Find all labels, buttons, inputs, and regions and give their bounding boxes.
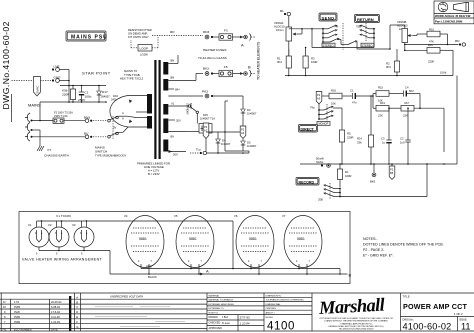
- svg-text:R14: R14: [357, 137, 362, 141]
- valve V3: [72, 223, 94, 256]
- svg-text:MONOP: MONOP: [319, 122, 329, 126]
- svg-text:RD3: RD3: [203, 30, 209, 34]
- label RETURN box: [355, 15, 380, 23]
- node SVAC shield: [34, 77, 41, 97]
- svg-text:0V: 0V: [113, 126, 116, 130]
- wire RD dotted: [152, 30, 203, 36]
- potentiometer VR1MB: [390, 20, 427, 50]
- label primaries linked: [137, 162, 170, 177]
- terminal RD3: [203, 30, 219, 39]
- svg-text:F3: F3: [224, 29, 228, 33]
- svg-text:A: A: [76, 295, 78, 299]
- svg-text:RECORD: RECORD: [299, 180, 315, 184]
- svg-text:CENTRES: CENTRES: [266, 308, 277, 310]
- svg-text:ALOG10: ALOG10: [274, 24, 285, 28]
- svg-text:BK6: BK6: [370, 180, 376, 184]
- svg-text:K.Lee: K.Lee: [222, 321, 230, 325]
- svg-text:P2: P2: [317, 93, 321, 97]
- jack RETURN contacts: [356, 23, 375, 47]
- label to heater elements: [257, 41, 261, 80]
- svg-text:741: 741: [2, 328, 7, 332]
- svg-text:A: A: [206, 269, 209, 274]
- terminal BK6: [370, 163, 376, 183]
- wire rectifier loop: [225, 96, 249, 153]
- terminal LNE: [52, 65, 69, 72]
- svg-text:20-06-94: 20-06-94: [51, 300, 62, 304]
- terminal BK3: [203, 67, 219, 76]
- potentiometer VR1MA: [274, 21, 302, 56]
- svg-text:WH: WH: [175, 88, 180, 92]
- svg-text:F5: F5: [224, 65, 228, 69]
- mains connector: [25, 113, 85, 146]
- svg-text:EXTERNAL SEMI FINISH: EXTERNAL SEMI FINISH: [209, 303, 235, 306]
- resistor R10: [427, 28, 448, 45]
- wire record bus: [300, 76, 457, 165]
- capacitor C2: [400, 107, 411, 164]
- svg-text:RESISTOR FITTED: RESISTOR FITTED: [128, 28, 152, 32]
- wire dotted to strip: [12, 80, 52, 82]
- wire switch to primary: [118, 116, 136, 132]
- svg-text:A: A: [122, 111, 124, 115]
- svg-text:R16: R16: [331, 89, 336, 93]
- svg-text:50mW: 50mW: [316, 157, 324, 161]
- svg-text:TITLE: TITLE: [403, 295, 410, 299]
- svg-text:1N4007: 1N4007: [221, 142, 231, 146]
- svg-text:C1: C1: [350, 89, 354, 93]
- valve V7: [282, 214, 322, 274]
- svg-text:V5: V5: [174, 214, 178, 218]
- svg-text:D2: D2: [247, 108, 251, 112]
- svg-text:P2: P2: [204, 125, 208, 129]
- table volt data header: [95, 294, 185, 326]
- svg-text:1-10-93: 1-10-93: [51, 320, 60, 324]
- resistor RL: [337, 164, 351, 187]
- svg-text:0V80: 0V80: [14, 315, 21, 319]
- svg-text:3 x TCC83: 3 x TCC83: [56, 214, 71, 218]
- svg-text:V4: V4: [124, 214, 128, 218]
- svg-text:79a: 79a: [310, 106, 315, 110]
- diode D2: [241, 107, 257, 117]
- svg-text:3K3: 3K3: [386, 65, 391, 69]
- svg-text:C: C: [76, 305, 78, 309]
- svg-text:SEND: SEND: [322, 15, 335, 20]
- svg-text:A3: A3: [317, 97, 321, 101]
- svg-text:17-5-94: 17-5-94: [51, 310, 60, 314]
- svg-text:RED: RED: [146, 264, 152, 268]
- table revision rows: [0, 299, 207, 328]
- node P2 A3 direct: [316, 92, 322, 105]
- svg-text:100R: 100R: [311, 60, 317, 64]
- resistor R14: [357, 95, 374, 164]
- wire heater bottom bus: [39, 250, 110, 274]
- label RECORD box: [296, 178, 319, 186]
- svg-text:17/1: 17/1: [14, 300, 20, 304]
- svg-text:DENBIGH ROAD, BLETCHLEY, MILTO: DENBIGH ROAD, BLETCHLEY, MILTON KEYNES, …: [328, 325, 383, 328]
- node star point text: [82, 71, 111, 76]
- svg-text:V1: V1: [171, 102, 175, 106]
- svg-text:EXTERNAL 2.5: EXTERNAL 2.5: [209, 307, 225, 310]
- label resistor fitted note: [128, 28, 152, 39]
- svg-text:33K: 33K: [357, 141, 362, 145]
- label heater fuses: [198, 48, 227, 60]
- valve V6: [234, 214, 274, 274]
- svg-text:/77: /77: [47, 148, 52, 152]
- svg-text:5881: 5881: [189, 237, 197, 241]
- wire loop cross: [312, 40, 390, 50]
- svg-text:10Vd: 10Vd: [440, 71, 447, 75]
- svg-text:DWG.No.4100-60-02: DWG.No.4100-60-02: [1, 21, 11, 109]
- svg-text:C2: C2: [400, 137, 404, 141]
- svg-text:0V2h: 0V2h: [14, 310, 21, 314]
- svg-text:POWER AMP CCT: POWER AMP CCT: [403, 302, 468, 311]
- node P2 A3: [240, 124, 246, 139]
- svg-text:TYPE SRJ8CMAB8KGOGV: TYPE SRJ8CMAB8KGOGV: [95, 155, 126, 158]
- resistor LOOP: [131, 36, 158, 57]
- svg-text:CHECKED: CHECKED: [209, 322, 221, 325]
- svg-text:VR1MB: VR1MB: [397, 20, 406, 24]
- svg-text:G: G: [76, 325, 78, 329]
- svg-text:MATERIAL TOLERANCE: MATERIAL TOLERANCE: [209, 299, 234, 302]
- resistor R16: [322, 89, 352, 106]
- svg-text:Marshall: Marshall: [318, 296, 387, 320]
- svg-text:B: B: [248, 65, 251, 70]
- svg-text:DIMENSION IN: DIMENSION IN: [266, 295, 282, 297]
- svg-text:DIRECT: DIRECT: [301, 127, 315, 131]
- diode D17: [97, 86, 110, 103]
- svg-text:1N4007: 1N4007: [247, 144, 257, 148]
- svg-text:V3: V3: [72, 223, 76, 227]
- svg-text:0V80: 0V80: [14, 320, 21, 324]
- svg-text:DATE: DATE: [51, 328, 58, 332]
- svg-text:D: D: [76, 310, 78, 314]
- svg-text:MODEL: MODEL: [266, 317, 275, 319]
- svg-text:1.10.94: 1.10.94: [240, 321, 250, 325]
- capacitor C4: [404, 86, 420, 109]
- svg-text:NOTES:-: NOTES:-: [363, 237, 378, 241]
- svg-text:T0.3A 20mm GLASS: T0.3A 20mm GLASS: [198, 56, 227, 60]
- resistor R56: [62, 86, 76, 103]
- svg-text:HEX TYPE TXCL2: HEX TYPE TXCL2: [120, 77, 144, 81]
- svg-text:1N4007: 1N4007: [101, 95, 111, 99]
- terminal PK3: [202, 90, 243, 98]
- svg-text:3K3: 3K3: [277, 60, 282, 64]
- wire black heater: [110, 269, 352, 280]
- svg-text:11: 11: [461, 322, 471, 332]
- table material block: [207, 294, 264, 331]
- MAINS PSU label box: [66, 31, 108, 41]
- svg-text:A3: A3: [241, 131, 245, 135]
- drawing number strip: [1, 21, 11, 109]
- svg-text:SWITCH: SWITCH: [95, 150, 107, 154]
- svg-text:VALVE HEATER WIRING ARRANGEMEN: VALVE HEATER WIRING ARRANGEMENT: [22, 258, 103, 262]
- svg-text:DRAWN: DRAWN: [209, 316, 218, 319]
- svg-text:5881: 5881: [249, 237, 257, 241]
- svg-text:5881: 5881: [139, 237, 147, 241]
- fuse F3: [219, 29, 255, 48]
- svg-text:RD: RD: [170, 30, 175, 34]
- svg-text:A: A: [122, 116, 124, 120]
- fuse F5: [219, 65, 255, 78]
- svg-text:D5: D5: [247, 141, 251, 145]
- svg-text:© MARSHALL AMPLIFICATION: © MARSHALL AMPLIFICATION PLC: [340, 322, 373, 325]
- label mains tx type: [120, 69, 144, 81]
- svg-text:BV: BV: [171, 135, 175, 139]
- notes text: [363, 237, 444, 258]
- svg-text:1n0: 1n0: [400, 141, 405, 145]
- resistor R3: [303, 47, 317, 76]
- resistor R13: [372, 94, 401, 118]
- ground chassis earth: [37, 146, 69, 158]
- wire psu bus: [40, 101, 107, 103]
- svg-text:RETURN: RETURN: [357, 17, 374, 22]
- table frame: [0, 293, 474, 331]
- switch battery standby: [186, 103, 199, 118]
- svg-text:HEATER FUSES: HEATER FUSES: [203, 48, 227, 52]
- svg-text:VA7: VA7: [404, 101, 409, 105]
- resistor R2: [386, 48, 400, 75]
- svg-text:R2: R2: [386, 62, 390, 66]
- svg-text:220R: 220R: [62, 93, 70, 97]
- jack SEND sleeve: [341, 23, 358, 50]
- mains switch: [95, 116, 126, 158]
- svg-text:TOLERANCE (UNLESS OTHERWISE): TOLERANCE (UNLESS OTHERWISE): [266, 299, 304, 302]
- node P2 A7: [203, 123, 209, 152]
- svg-text:STEREO: STEREO: [362, 43, 373, 47]
- svg-text:100u: 100u: [85, 95, 92, 99]
- logo Marshall: [318, 296, 394, 331]
- svg-text:B: B: [349, 273, 352, 278]
- svg-text:BK3: BK3: [203, 67, 209, 71]
- terminal RD: [404, 39, 465, 46]
- svg-text:1N4007 T1A: 1N4007 T1A: [200, 117, 215, 121]
- terminal TLa: [190, 148, 249, 155]
- jack signal terminals: [316, 157, 330, 168]
- svg-text:50V: 50V: [409, 89, 414, 93]
- svg-text:J5B: J5B: [318, 198, 323, 202]
- svg-text:ON DEMO AMP,: ON DEMO AMP,: [128, 31, 148, 35]
- label DIRECT box: [299, 125, 318, 133]
- svg-text:R13: R13: [380, 101, 385, 105]
- svg-text:D15: D15: [203, 113, 208, 117]
- svg-text:1 OF 2: 1 OF 2: [454, 312, 463, 316]
- svg-text:ANGLE ±: ANGLE ±: [266, 312, 276, 315]
- svg-text:5881: 5881: [297, 237, 305, 241]
- svg-text:100R: 100R: [345, 174, 351, 178]
- svg-text:SGNL: SGNL: [316, 160, 324, 164]
- svg-text:ECO NUMBER: ECO NUMBER: [14, 328, 32, 332]
- svg-text:220R: 220R: [347, 136, 353, 140]
- svg-text:4100: 4100: [267, 321, 295, 333]
- wire neutral drop: [39, 102, 41, 121]
- transformer T1 core: [154, 60, 160, 159]
- svg-text:RL: RL: [280, 9, 284, 13]
- svg-text:B = 234V: B = 234V: [148, 172, 160, 176]
- svg-text:250V: 250V: [78, 98, 86, 102]
- svg-text:PK3: PK3: [202, 90, 208, 94]
- transformer T1 primary: [147, 94, 152, 129]
- svg-text:B: B: [76, 300, 78, 304]
- terminal RL: [280, 9, 290, 27]
- resistor R5: [333, 108, 353, 164]
- svg-text:V1: V1: [28, 223, 32, 227]
- svg-text:20V: 20V: [173, 153, 178, 157]
- svg-text:R3: R3: [311, 57, 315, 61]
- resistor R12: [401, 101, 444, 152]
- svg-text:B5: B5: [390, 171, 394, 175]
- svg-text:APPROVED: APPROVED: [209, 327, 223, 330]
- svg-text:F: F: [76, 320, 78, 324]
- svg-text:4100-60-02: 4100-60-02: [403, 322, 452, 332]
- svg-text:TEL (0908) 375411 FAX (0908): TEL (0908) 375411 FAX (0908) 376118: [339, 328, 375, 331]
- svg-text:DOTTED LINES DENOTE WIRES OFF: DOTTED LINES DENOTE WIRES OFF THE PCB.: [363, 243, 444, 247]
- terminal BU: [84, 132, 107, 139]
- svg-text:R5: R5: [347, 132, 351, 136]
- svg-text:MATERIAL: MATERIAL: [209, 294, 221, 297]
- label SEND box: [319, 13, 337, 21]
- svg-text:LOOP: LOOP: [140, 47, 149, 51]
- valve heater box: [19, 212, 350, 284]
- svg-text:1N4007: 1N4007: [247, 112, 257, 116]
- svg-text:C3: C3: [381, 137, 385, 141]
- svg-text:RL: RL: [345, 170, 349, 174]
- svg-text:P2 - PAGE 2.: P2 - PAGE 2.: [363, 248, 384, 252]
- svg-text:BN: BN: [171, 76, 175, 80]
- svg-text:RD: RD: [455, 39, 460, 43]
- svg-text:MAINS: MAINS: [28, 103, 41, 108]
- svg-text:STANDBY: STANDBY: [186, 103, 189, 115]
- svg-text:R1: R1: [277, 57, 281, 61]
- valve V2: [48, 223, 69, 256]
- svg-text:A: A: [241, 43, 244, 48]
- svg-text:R15: R15: [378, 86, 383, 90]
- diode D4: [206, 131, 243, 153]
- label mains: [28, 103, 41, 108]
- resistor R1: [277, 49, 291, 76]
- svg-text:LOANED WITHOUT THE WRITTEN PER: LOANED WITHOUT THE WRITTEN PERMISSION OF…: [324, 320, 388, 323]
- svg-text:22K: 22K: [403, 114, 408, 118]
- svg-text:P2: P2: [241, 128, 245, 132]
- svg-text:V2: V2: [48, 223, 52, 227]
- svg-text:47n: 47n: [352, 101, 357, 105]
- svg-text:D16: D16: [113, 94, 118, 98]
- svg-text:WORK ANGLE 45 DEG'CW: WORK ANGLE 45 DEG'CW: [435, 14, 471, 18]
- svg-text:NOM TOL: NOM TOL: [209, 313, 220, 315]
- table tolerance block: [264, 295, 312, 332]
- svg-text:E* - GRID REF. E*.: E* - GRID REF. E*.: [363, 254, 394, 258]
- terminal BN3: [84, 116, 107, 123]
- wire primary taps: [110, 94, 147, 130]
- svg-text:230V T1.6A: 230V T1.6A: [54, 114, 68, 118]
- valve V4: [124, 214, 164, 274]
- node P2 B5: [389, 163, 395, 179]
- svg-text:10mm: 10mm: [276, 28, 284, 32]
- svg-text:P2: P2: [390, 168, 394, 172]
- svg-text:VR1MA: VR1MA: [274, 21, 283, 25]
- svg-text:MAINS PSU: MAINS PSU: [71, 35, 108, 41]
- title block: [401, 293, 474, 332]
- svg-text:SVAC: SVAC: [35, 85, 39, 94]
- resistor R11: [404, 43, 453, 76]
- wire star rail: [60, 70, 106, 103]
- wire heater top bus: [37, 220, 234, 227]
- svg-text:6-08-94: 6-08-94: [51, 305, 60, 309]
- svg-text:TLa: TLa: [196, 148, 201, 152]
- svg-text:ALOG10: ALOG10: [397, 23, 408, 27]
- svg-text:DIMENSIONAL: DIMENSIONAL: [266, 303, 282, 306]
- resistor R15: [373, 86, 403, 103]
- svg-text:D17: D17: [102, 90, 108, 94]
- capacitor C1: [350, 89, 373, 105]
- wire strip border: [11, 94, 13, 122]
- svg-text:Part L1306CM2.2WM: Part L1306CM2.2WM: [435, 19, 463, 23]
- svg-text:240V: 240V: [111, 98, 117, 102]
- capacitor C30: [78, 86, 92, 103]
- svg-text:L/10W: L/10W: [140, 53, 148, 57]
- wire red heater: [141, 221, 340, 274]
- valve V1: [28, 223, 49, 256]
- svg-text:STEREO: STEREO: [323, 43, 334, 47]
- svg-text:27/7-93: 27/7-93: [240, 316, 251, 320]
- table grid letters: [76, 295, 78, 328]
- svg-text:3-11-93: 3-11-93: [51, 315, 60, 319]
- svg-text:UNSPECIFIED VOLT DATA: UNSPECIFIED VOLT DATA: [110, 294, 143, 298]
- table revision text: [2, 300, 62, 331]
- svg-text:TO HEATER ELEMENTS: TO HEATER ELEMENTS: [257, 41, 261, 80]
- capacitor C3: [381, 107, 392, 164]
- switch mono: [310, 104, 334, 126]
- fuse F2: [53, 111, 85, 124]
- svg-text:E: E: [76, 315, 78, 319]
- svg-text:J.Boz: J.Boz: [222, 316, 229, 319]
- transformer T1 secondary: [163, 62, 168, 152]
- wire lower fx bus: [285, 71, 453, 77]
- svg-text:CHASSIS EARTH: CHASSIS EARTH: [44, 154, 69, 158]
- svg-text:BN: BN: [171, 59, 175, 63]
- terminal GND: [52, 76, 69, 83]
- valve V5: [174, 214, 214, 274]
- diode D15: [186, 113, 215, 133]
- wire send feed: [289, 28, 323, 48]
- svg-text:C4: C4: [405, 86, 409, 90]
- wire secondary taps: [168, 55, 203, 157]
- svg-text:KIT UNITS ONLY: KIT UNITS ONLY: [128, 35, 149, 39]
- svg-text:R11: R11: [428, 43, 433, 47]
- svg-text:STAR POINT: STAR POINT: [82, 71, 111, 76]
- switch record: [318, 164, 427, 202]
- svg-text:10K: 10K: [331, 102, 336, 106]
- svg-text:V7: V7: [282, 214, 286, 218]
- svg-text:0V85: 0V85: [14, 305, 21, 309]
- svg-text:220K: 220K: [428, 60, 434, 64]
- svg-text:V6: V6: [234, 214, 238, 218]
- svg-text:22K: 22K: [378, 114, 383, 118]
- svg-text:1u: 1u: [382, 141, 385, 145]
- svg-text:BLACK: BLACK: [148, 275, 157, 279]
- diode D5: [241, 141, 257, 149]
- projection symbol box: [434, 1, 474, 24]
- svg-text:20V: 20V: [176, 119, 181, 123]
- jack SEND contacts: [322, 25, 340, 48]
